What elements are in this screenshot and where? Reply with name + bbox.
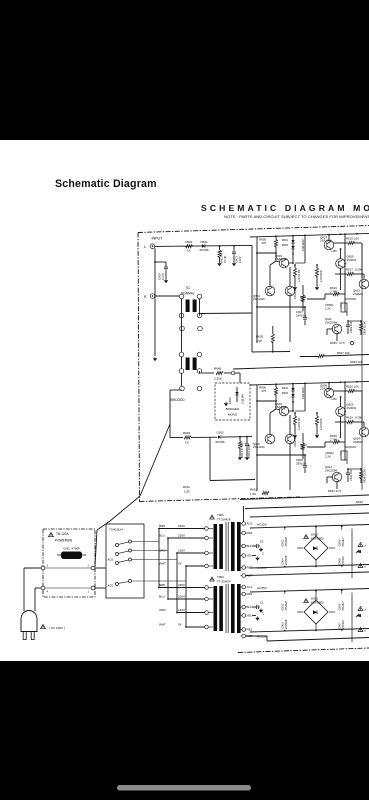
svg-text:C1: C1 [260,601,264,605]
voltage bus vertical WHT [185,566,187,627]
svg-text:L: L [144,245,146,249]
secondary tap AC1 [241,586,242,588]
transistor Q601 input pair [265,286,275,296]
terminal node bridged [231,371,235,375]
switch S1 section 1 contacts [179,294,184,299]
svg-text:R618: R618 [346,416,353,420]
voltage bus vertical ORG [176,553,178,613]
svg-text:TB-120A: TB-120A [56,532,69,536]
svg-text:25V6U8: 25V6U8 [284,619,288,629]
svg-text:25V4U7: 25V4U7 [341,601,345,611]
svg-text:BRN: BRN [159,524,165,528]
svg-text:MONO: MONO [228,413,238,417]
wire powersw internal [45,567,91,569]
svg-text:27.4K: 27.4K [223,255,227,263]
svg-text:4790P: 4790P [72,547,80,551]
svg-text:ORG: ORG [159,548,167,552]
svg-text:R602: R602 [183,431,191,435]
svg-text:E2: E2 [260,540,264,544]
wire R ground leg [154,296,156,356]
transistor Q604 2SA1016 [279,406,289,416]
svg-text:TT-204GF: TT-204GF [217,518,231,522]
wire input right down to node [209,437,211,480]
resistor R613 1/2W20K [316,265,318,268]
switch S1 left rail [181,298,183,388]
wire plug lead left [23,568,25,611]
transistor Q614 2SC3600 [359,427,369,437]
svg-text:INPUT: INPUT [152,237,164,241]
transistor Q603 2SA1016 [279,258,289,268]
svg-text:TX401114: TX401114 [109,528,123,532]
secondary tap BLK [241,545,242,547]
svg-text:BRIDGED: BRIDGED [226,407,241,411]
svg-text:100: 100 [354,237,359,241]
secondary tap AC4 [241,575,242,577]
svg-text:1.5K: 1.5K [256,339,262,343]
powersw pin 2 [91,566,95,570]
svg-text:2SA1016: 2SA1016 [253,445,265,449]
capacitor column lead [284,592,286,595]
secondary tap RE3 [241,532,242,534]
svg-text:1N4148Z: 1N4148Z [301,239,305,251]
svg-text:R639 10K: R639 10K [350,360,363,364]
switch S1 right rail [199,298,201,313]
switch S1 section 1 lower contacts [179,313,184,318]
capacitor C610 33P [347,469,349,472]
svg-text:1/2W1.8K: 1/2W1.8K [297,417,301,430]
svg-text:120V: 120V [178,608,185,612]
svg-text:240V: 240V [178,583,185,587]
ground flag right [356,614,361,617]
svg-text:D601: D601 [201,240,209,244]
svg-text:BLK: BLK [247,605,253,609]
secondary tap AC2 [241,523,242,525]
bridge side stubs [297,611,303,613]
svg-text:2SC2594: 2SC2594 [325,468,337,472]
channel mesh wires [257,252,276,254]
capacitor C604 100P with ground [246,437,248,443]
svg-text:+45V: +45V [331,398,337,401]
diode D602b 50V1B [191,436,217,438]
wire to lower amp [222,436,252,439]
svg-text:BRIDGED: BRIDGED [170,398,185,402]
svg-text:2SA1016: 2SA1016 [275,405,287,409]
svg-text:25V4U7: 25V4U7 [341,555,345,565]
secondary tap YEL [241,615,242,617]
powersw pin 4 [41,586,45,590]
resistor R624 33.2K [360,321,362,323]
svg-text:50V1B: 50V1B [200,248,209,252]
capacitor E2 with ground [252,545,256,547]
svg-text:R637 10K: R637 10K [337,351,350,355]
svg-text:YEL: YEL [247,554,253,558]
svg-text:RE3: RE3 [247,531,253,535]
svg-text:BLU: BLU [159,533,165,537]
selector contacts row 1 [116,544,119,547]
junction on input wire [219,245,221,247]
svg-text:25V6U8: 25V6U8 [284,601,288,611]
svg-text:25V6U8: 25V6U8 [284,537,288,547]
svg-text:2S3631: 2S3631 [347,258,357,262]
svg-text:C: C [262,552,264,556]
svg-text:S1: S1 [186,286,190,290]
wire powersw to selector [95,567,106,569]
secondary tap RE3 [241,567,242,569]
junctions on lower input wire [239,436,241,438]
warning triangle right lower [358,564,363,568]
svg-text:1K: 1K [187,248,191,252]
svg-text:240V: 240V [178,524,185,528]
svg-text:2.25K: 2.25K [214,377,222,381]
phone top black band [0,0,369,140]
svg-text:D601: D601 [282,386,289,390]
selector contacts row 2 [116,553,119,556]
svg-text:D601: D601 [282,238,289,242]
svg-text:1K: 1K [185,440,189,444]
wire switch bottom to lower channel [170,389,182,391]
svg-text:YEL: YEL [247,614,253,618]
svg-text:RE3: RE3 [247,592,253,596]
svg-text:POWERSW: POWERSW [55,539,72,543]
ground YEL upper [252,555,256,557]
voltage bus vertical BLU [167,538,169,599]
switch S1 section 2 contacts [179,352,184,357]
svg-text:AC5: AC5 [108,584,114,588]
svg-text:BLK: BLK [247,544,253,548]
svg-text:1N4148Z: 1N4148Z [301,387,305,399]
svg-text:Schematic Diagram: Schematic Diagram [55,178,157,190]
wire R602 feed [170,437,183,439]
svg-text:AC35V: AC35V [257,635,268,639]
svg-text:50V1B: 50V1B [216,440,225,444]
transformer T901 [210,515,215,519]
wire input down right side [251,245,253,352]
svg-text:R601: R601 [186,240,194,244]
svg-text:LN214K: LN214K [241,394,245,404]
rectifier rail top D901 [250,589,369,593]
svg-text:T901: T901 [217,513,224,517]
svg-text:AC1: AC1 [247,585,253,589]
svg-text:1/2W1.8K: 1/2W1.8K [297,269,301,282]
capacitor C603 100P with ground [233,246,235,250]
capacitor C1 with ground [252,606,256,608]
wire amp to AC2 [243,506,245,522]
svg-text:SCHEMATIC DIAGRAM MOD: SCHEMATIC DIAGRAM MOD [201,203,369,213]
svg-text:8.25K: 8.25K [355,416,363,420]
bridge leads [315,591,317,600]
wire L input [155,245,253,246]
powersw pin 1 [91,586,95,590]
svg-text:R610: R610 [250,488,258,492]
phone bottom black band [0,661,369,800]
channel vertical rails [256,237,258,343]
schematic frame bottom border [140,497,301,502]
svg-text:R617: R617 [346,268,353,272]
wire AC3 bottom rail [246,635,268,637]
wire node to lower channel rail [210,480,255,481]
svg-text:R629: R629 [256,335,264,339]
switch S1 bottom contacts [180,386,185,391]
switch S1 middle contacts [180,326,185,331]
warning triangle right lower [358,628,363,632]
capacitor column lead right [341,526,343,530]
wire supply rail V+ lower [250,381,369,385]
channel mesh wires [257,400,276,402]
svg-text:100: 100 [354,385,359,389]
wire R629 row [252,351,290,354]
secondary tap BLK [241,606,242,608]
ground YEL lower [252,615,256,617]
svg-text:R640: R640 [214,367,222,371]
mid vertical [351,593,353,643]
secondary tap AC3 [241,635,242,637]
switch S1 section 2 lower contacts [179,369,184,374]
transistor Q613 2SC3600 [359,279,369,289]
svg-text:R604 27.4K: R604 27.4K [240,443,244,458]
svg-text:120V: 120V [178,548,185,552]
svg-text:TT-204GF: TT-204GF [217,580,231,584]
sheet bottom border lower [238,648,369,653]
capacitor C609 33P [347,321,349,324]
svg-text:R615: R615 [346,237,353,241]
svg-text:R610: R610 [183,485,190,489]
svg-text:2SC2594: 2SC2594 [325,320,337,324]
rectifier rail top D902 [250,525,369,529]
svg-text:D603: D603 [282,243,289,247]
output rail 1 [240,495,369,500]
resistor R605 475 [275,236,277,239]
transformer T902 [210,577,215,581]
svg-text:AC2: AC2 [247,522,253,526]
long mid rail [233,365,369,370]
svg-text:( AC 120V ): ( AC 120V ) [49,626,65,630]
rectifier rail bottom D901 [250,629,369,633]
svg-text:R616: R616 [346,385,353,389]
svg-text:25V4U7: 25V4U7 [341,619,345,629]
resistor R603 27.4K with ground [219,246,221,250]
switch S1 section 1 bars [186,300,190,313]
svg-text:2.2K: 2.2K [325,454,331,458]
warning triangle right upper [358,607,363,611]
svg-text:220V: 220V [178,594,185,598]
ground flag right [356,550,361,553]
schematic frame top border [138,226,369,233]
AC plug [21,611,37,632]
svg-text:NOTE · PARTS AND CIRCUIT SUBJE: NOTE · PARTS AND CIRCUIT SUBJECT TO CHAN… [224,215,369,219]
svg-text:1/2W10K: 1/2W10K [319,418,323,430]
svg-text:C691: C691 [63,547,70,551]
selector lower contacts [116,583,119,586]
svg-text:C: C [262,612,264,616]
svg-text:T902: T902 [217,575,224,579]
svg-text:8.25K: 8.25K [355,268,363,272]
bridge side stubs [297,547,303,549]
svg-text:WHT: WHT [159,561,166,565]
svg-text:AC35V: AC35V [257,586,268,590]
svg-text:WHT: WHT [159,622,166,626]
power switch box TB-120A POWERSW [43,529,95,597]
svg-text:BRN: BRN [159,583,165,587]
voltage bus vertical BRN [158,529,160,588]
warning label AC 120V [41,624,46,628]
rail junction dots [275,235,277,237]
svg-text:2.2K: 2.2K [325,306,331,310]
svg-text:0V: 0V [178,622,182,626]
schematic soft-focus group [21,226,369,653]
diode D602 1N4148 [292,384,294,388]
white document page [0,140,369,661]
svg-text:C602: C602 [217,431,225,435]
svg-text:R622 47.5: R622 47.5 [328,489,342,493]
secondary tap RE3 [241,629,242,631]
svg-text:100P: 100P [238,256,242,263]
svg-text:2SA1016: 2SA1016 [253,297,265,301]
output rail 3 [250,513,369,517]
svg-text:RE3: RE3 [247,628,253,632]
wire supply rail V+ upper [250,233,369,237]
resistor R614 1/2W20K [316,413,318,416]
svg-text:BLU: BLU [159,594,165,598]
warning triangle right upper [358,543,363,547]
svg-text:R624 33.2K: R624 33.2K [363,321,367,335]
selector output wires [132,541,160,543]
wire R640 feed [199,371,201,373]
resistor R607 1/2W1.8K [294,265,296,268]
svg-text:C609 33P: C609 33P [349,321,353,333]
svg-text:R635: R635 [330,341,337,345]
svg-text:1.5K: 1.5K [184,490,190,494]
warning triangle powersw [49,532,54,536]
transistor Q602 input pair [265,434,275,444]
wire R to switch [155,295,182,297]
resistor R604 27.4K with ground [239,437,241,441]
svg-text:475: 475 [261,241,266,245]
rail junction dots [275,383,277,385]
resistor R626 33.2K [360,469,362,471]
svg-text:1/2W10K: 1/2W10K [319,270,323,282]
diagonal mains wire [140,424,170,496]
svg-text:R626 33.2K: R626 33.2K [363,469,367,483]
schematic frame left border [138,233,140,502]
svg-text:0V: 0V [178,561,182,565]
bridge rectifier D901 KBPC802 [304,599,309,603]
svg-text:R630: R630 [356,500,363,504]
svg-text:ORG: ORG [159,608,167,612]
switch S1 section 2 bars [186,358,190,371]
svg-text:2S3631: 2S3631 [347,406,357,410]
svg-text:0.047: 0.047 [161,272,165,280]
wire AC4 rail [246,572,369,576]
wire switch to amp upper [199,314,201,316]
svg-text:D602: D602 [228,397,232,404]
svg-text:25V4U7: 25V4U7 [341,537,345,547]
capacitor column lead [284,528,286,531]
resistor R608 1/2W1.8K [294,413,296,416]
svg-text:C604 100P: C604 100P [247,444,251,458]
channel vertical rails [256,385,258,491]
output rail 2 [245,505,369,509]
rectifier rail bottom D902 [250,565,369,569]
svg-text:D603: D603 [282,391,289,395]
capacitor C600 0.047 with ground [154,248,156,296]
svg-text:2SA1016: 2SA1016 [275,257,287,261]
home indicator bar [117,785,251,791]
secondary tap YEL [241,555,242,557]
wire plug lead right [34,588,36,611]
dashed box BRIDGED MONO [215,383,250,420]
svg-text:1.5K: 1.5K [250,492,256,496]
selector contacts row 3 [116,562,119,565]
svg-text:+45V: +45V [331,250,337,253]
svg-text:C610 33P: C610 33P [349,469,353,481]
secondary tap RE3 [241,593,242,595]
mid vertical [351,529,353,579]
diode D601 1N4148 [292,236,294,240]
svg-text:25V6U8: 25V6U8 [284,555,288,565]
svg-text:47.5: 47.5 [339,341,345,345]
bridge rectifier D902 KBPC802 [304,535,309,539]
capacitor column lead right [341,590,343,594]
svg-text:AC35V: AC35V [257,523,268,527]
svg-text:AC6: AC6 [108,558,114,562]
powersw pin 3 [41,566,45,570]
voltage selector box TX401114 [106,524,144,598]
bridge leads [315,527,317,536]
resistor R606 475 [275,384,277,387]
right area vertical rail [361,244,363,490]
svg-text:220V: 220V [178,533,185,537]
svg-text:475: 475 [261,389,266,393]
